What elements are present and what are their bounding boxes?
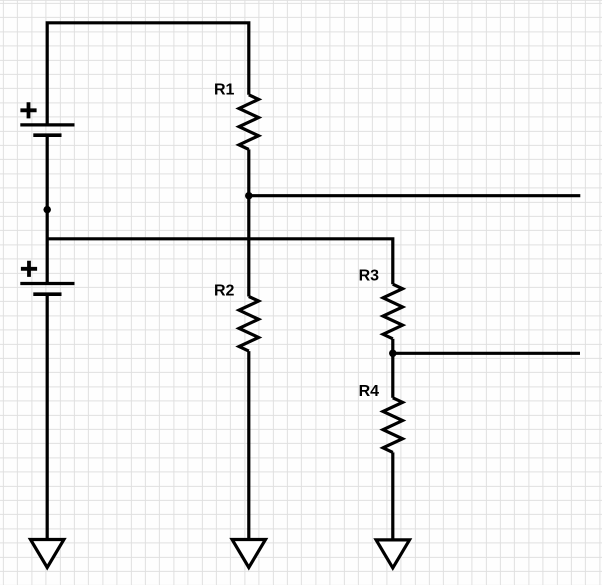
svg-text:R2: R2	[214, 283, 235, 300]
svg-text:R1: R1	[214, 82, 235, 99]
svg-text:R3: R3	[359, 267, 380, 284]
svg-text:R4: R4	[359, 383, 380, 400]
